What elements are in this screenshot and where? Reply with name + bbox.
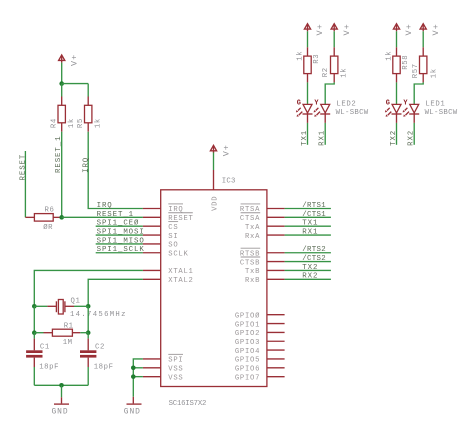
LED LED1 green element <box>385 104 402 123</box>
svg-text:RESET_1: RESET_1 <box>97 211 134 219</box>
svg-text:CTSB: CTSB <box>240 259 260 267</box>
wire net XTAL2 <box>88 279 143 306</box>
pin CTSB <box>267 261 285 263</box>
wire to R5 <box>87 84 89 97</box>
op-amp IC3 box (SC16IS7X2) <box>161 190 267 387</box>
LED LED2 green element <box>296 104 313 123</box>
pin name CS overline <box>168 221 178 223</box>
svg-text:TX1: TX1 <box>302 220 318 228</box>
svg-text:GPIO1: GPIO1 <box>235 321 260 329</box>
resistor R58 <box>386 47 410 82</box>
pin name IRQ overline <box>168 203 183 205</box>
svg-text:R1: R1 <box>64 323 74 331</box>
resistor R6 <box>25 206 61 232</box>
svg-text:WL-SBCW: WL-SBCW <box>425 109 458 117</box>
pin name RESET overline <box>168 212 193 214</box>
svg-text:C2: C2 <box>95 344 105 352</box>
wire net TX1 <box>285 225 331 227</box>
wire net XTAL1 <box>34 270 143 306</box>
svg-text:RxB: RxB <box>245 277 260 285</box>
capacitor C1 <box>26 339 59 372</box>
svg-text:SPI1_MISO: SPI1_MISO <box>97 237 145 245</box>
supply V+ P4 <box>331 24 337 32</box>
svg-text:GPIO7: GPIO7 <box>235 374 260 382</box>
pin XTAL1 <box>143 269 161 271</box>
svg-text:Y: Y <box>403 99 408 107</box>
pin RTSA <box>267 208 285 210</box>
svg-text:TxA: TxA <box>245 224 260 232</box>
node XTAL1-Q1 junction <box>32 304 37 309</box>
wire net SPI1_MISO <box>96 243 143 245</box>
wire rail to GND <box>61 385 63 397</box>
pin CTSA <box>267 216 285 218</box>
wire right column to R1 <box>87 306 89 332</box>
pin VSS1 <box>143 367 161 369</box>
pin GPIO6 <box>267 367 285 369</box>
svg-text:GPIO2: GPIO2 <box>235 330 260 338</box>
wire net /RTS2 <box>285 252 331 254</box>
pin RXA <box>267 234 285 236</box>
wire SPI/VSS to GND <box>133 359 143 397</box>
wire net SPI1_CE0 <box>96 225 143 227</box>
supply V+ P3 <box>304 24 310 32</box>
svg-text:/CTS2: /CTS2 <box>302 255 326 263</box>
pin SCLK <box>143 252 161 254</box>
svg-text:SPI1_SCLK: SPI1_SCLK <box>97 246 145 254</box>
ground GND1 <box>52 397 70 416</box>
wire LED1 yellow to RX2 <box>413 123 415 145</box>
svg-text:XTAL2: XTAL2 <box>168 277 193 285</box>
svg-text:TX2: TX2 <box>302 264 318 272</box>
supply V+ P6 <box>420 24 426 32</box>
svg-text:RX1: RX1 <box>319 130 327 146</box>
resistor R1 <box>34 323 88 348</box>
wire to R4 <box>61 84 63 97</box>
pin GPIO7 <box>267 376 285 378</box>
svg-text:GPIO6: GPIO6 <box>235 366 260 374</box>
svg-text:R5: R5 <box>77 118 85 128</box>
pin VSS2 <box>143 376 161 378</box>
svg-text:TX1: TX1 <box>301 130 309 146</box>
svg-text:GPIO3: GPIO3 <box>235 339 260 347</box>
wire C2 to rail <box>87 367 89 385</box>
pin name CTSA overline <box>241 212 261 214</box>
node V+ junction <box>59 81 64 86</box>
svg-text:SO: SO <box>168 242 178 250</box>
wire V+ horizontal <box>62 83 88 85</box>
svg-text:TxB: TxB <box>245 268 260 276</box>
svg-text:R58: R58 <box>402 55 410 70</box>
LED LED1 yellow element <box>403 104 420 123</box>
svg-text:/RTS2: /RTS2 <box>302 246 326 254</box>
wire LED2 yellow to RX1 <box>324 123 326 145</box>
svg-text:GPIO4: GPIO4 <box>235 348 260 356</box>
svg-text:LED1: LED1 <box>425 101 445 109</box>
svg-text:V+: V+ <box>404 23 414 35</box>
pin TXB <box>267 269 285 271</box>
pin XTAL2 <box>143 278 161 280</box>
supply V+ P1 <box>59 55 65 63</box>
svg-text:V+: V+ <box>69 54 79 66</box>
svg-text:VSS: VSS <box>168 374 183 382</box>
wire C1 to rail <box>33 367 35 385</box>
wire left column to R1 <box>33 306 35 332</box>
wire V+ to R58 <box>396 31 398 47</box>
svg-text:RX2: RX2 <box>302 273 318 281</box>
svg-text:ØR: ØR <box>43 223 53 232</box>
pin GPIO2 <box>267 331 285 333</box>
resistor R4 <box>51 97 76 132</box>
svg-text:1k: 1k <box>68 118 76 128</box>
svg-text:18pF: 18pF <box>39 363 59 371</box>
svg-text:/CTS1: /CTS1 <box>302 211 326 219</box>
node rail-GND junction <box>59 383 64 388</box>
capacitor C2 <box>80 339 114 372</box>
svg-text:R3: R3 <box>313 54 321 64</box>
pin SI <box>143 234 161 236</box>
wire LED1 green to TX2 <box>396 123 398 145</box>
svg-text:RX1: RX1 <box>302 228 318 236</box>
wire R58 to LED1 <box>396 82 398 104</box>
svg-text:RESET_1: RESET_1 <box>55 136 63 173</box>
pin IRQ <box>143 208 161 210</box>
wire R57 jog to LED1 yellow <box>414 82 423 104</box>
svg-text:Q1: Q1 <box>71 298 81 306</box>
wire net RESET from label <box>24 151 26 217</box>
wire net RESET_1 vertical <box>61 132 63 218</box>
svg-text:TX2: TX2 <box>390 130 398 146</box>
wire net RX2 <box>285 278 331 280</box>
svg-text:/RTS1: /RTS1 <box>302 202 326 210</box>
svg-text:WL-SBCW: WL-SBCW <box>336 109 369 117</box>
svg-text:C1: C1 <box>40 344 50 352</box>
svg-text:Y: Y <box>314 99 319 107</box>
svg-text:R6: R6 <box>45 206 55 214</box>
wire VSS2 stub <box>133 376 143 378</box>
svg-text:LED2: LED2 <box>336 101 356 109</box>
svg-text:1k: 1k <box>386 51 394 61</box>
svg-text:SI: SI <box>168 233 178 241</box>
node RESET_1 junction <box>59 215 64 220</box>
svg-text:V+: V+ <box>431 23 441 35</box>
pin GPIO4 <box>267 349 285 351</box>
pin RXB <box>267 278 285 280</box>
svg-text:1k: 1k <box>297 51 305 61</box>
pin TXA <box>267 225 285 227</box>
pin CS <box>143 225 161 227</box>
svg-text:1k: 1k <box>340 68 348 78</box>
supply V+ P2 at VDD <box>210 145 216 153</box>
wire R3 to LED2 <box>307 82 309 104</box>
supply V+ P5 <box>393 24 399 32</box>
svg-text:GND: GND <box>52 407 69 416</box>
wire bottom rail <box>34 384 88 386</box>
svg-text:IC3: IC3 <box>222 177 236 185</box>
wire V+ stem <box>61 63 63 84</box>
svg-text:XTAL1: XTAL1 <box>168 268 193 276</box>
svg-text:VSS: VSS <box>168 366 183 374</box>
LED LED2 yellow element <box>314 104 331 123</box>
pin RESET <box>143 216 161 218</box>
svg-text:R4: R4 <box>51 118 59 128</box>
pin VDD <box>213 170 215 190</box>
resistor R57 <box>412 47 439 82</box>
svg-text:18pF: 18pF <box>94 363 114 371</box>
svg-text:SPI1_CEØ: SPI1_CEØ <box>97 219 140 228</box>
crystal Q1 14.7456MHz <box>34 298 126 319</box>
svg-text:SPI: SPI <box>168 357 183 365</box>
svg-text:1k: 1k <box>94 118 102 128</box>
svg-text:V+: V+ <box>342 23 352 35</box>
node R1 left junction <box>32 330 37 335</box>
svg-text:IRQ: IRQ <box>97 202 113 210</box>
resistor R3 <box>297 47 321 82</box>
wire V+ to R57 <box>422 31 424 47</box>
svg-text:GPIOØ: GPIOØ <box>235 311 260 320</box>
pin name SPI overline <box>168 353 183 355</box>
svg-text:CTSA: CTSA <box>240 215 260 223</box>
wire VDD <box>213 153 215 171</box>
wire V+ to R3 <box>307 31 309 47</box>
svg-text:SPI1_MOSI: SPI1_MOSI <box>97 228 145 236</box>
wire V+ to R2 <box>333 31 335 47</box>
node VSS2 junction <box>131 374 136 379</box>
wire net RX1 <box>285 234 331 236</box>
pin name RTSB overline <box>241 247 261 249</box>
pin SO <box>143 243 161 245</box>
svg-text:GPIO5: GPIO5 <box>235 357 260 365</box>
svg-text:G: G <box>386 99 390 107</box>
svg-text:V+: V+ <box>315 23 325 35</box>
resistor R2 <box>322 47 348 82</box>
node VSS1 junction <box>131 366 136 371</box>
svg-text:14.7456MHz: 14.7456MHz <box>70 311 127 319</box>
svg-text:RX2: RX2 <box>408 130 416 146</box>
wire LED2 green to TX1 <box>307 123 309 145</box>
pin RTSB <box>267 252 285 254</box>
svg-text:GND: GND <box>124 407 141 416</box>
wire VSS1 stub <box>133 367 143 369</box>
wire net SPI1_MOSI <box>96 234 143 236</box>
wire net /RTS1 <box>285 208 331 210</box>
svg-text:CS: CS <box>168 224 178 232</box>
node XTAL2-Q1 junction <box>86 304 91 309</box>
pin name CTSB overline <box>241 256 261 258</box>
ground GND2 <box>124 397 142 417</box>
svg-text:SC16IS7X2: SC16IS7X2 <box>169 400 207 408</box>
svg-text:R2: R2 <box>322 67 330 77</box>
svg-text:RxA: RxA <box>245 233 260 241</box>
svg-text:G: G <box>297 99 301 107</box>
wire net RESET_1 to IC <box>62 216 143 218</box>
svg-text:1M: 1M <box>63 339 73 347</box>
node R1 right junction <box>86 330 91 335</box>
svg-text:VDD: VDD <box>212 196 220 211</box>
wire right column to C2 <box>87 333 89 339</box>
pin name RTSA overline <box>241 203 261 205</box>
svg-text:RESET: RESET <box>19 154 27 181</box>
wire net TX2 <box>285 269 331 271</box>
pin GPIO5 <box>267 358 285 360</box>
pin SPI <box>143 358 161 360</box>
pin GPIO1 <box>267 323 285 325</box>
pin GPIO0 <box>267 314 285 316</box>
pin GPIO3 <box>267 340 285 342</box>
wire net /CTS1 <box>285 216 331 218</box>
resistor R5 <box>77 97 102 132</box>
svg-text:V+: V+ <box>221 144 231 156</box>
wire net IRQ vertical <box>88 132 143 209</box>
svg-text:1k: 1k <box>430 68 438 78</box>
svg-text:R57: R57 <box>412 63 420 78</box>
svg-text:IRQ: IRQ <box>82 157 90 173</box>
wire left column to C1 <box>33 333 35 339</box>
wire net SPI1_SCLK <box>96 252 143 254</box>
wire net /CTS2 <box>285 261 331 263</box>
svg-text:SCLK: SCLK <box>168 250 188 258</box>
wire R2 jog to LED2 yellow <box>325 82 334 104</box>
